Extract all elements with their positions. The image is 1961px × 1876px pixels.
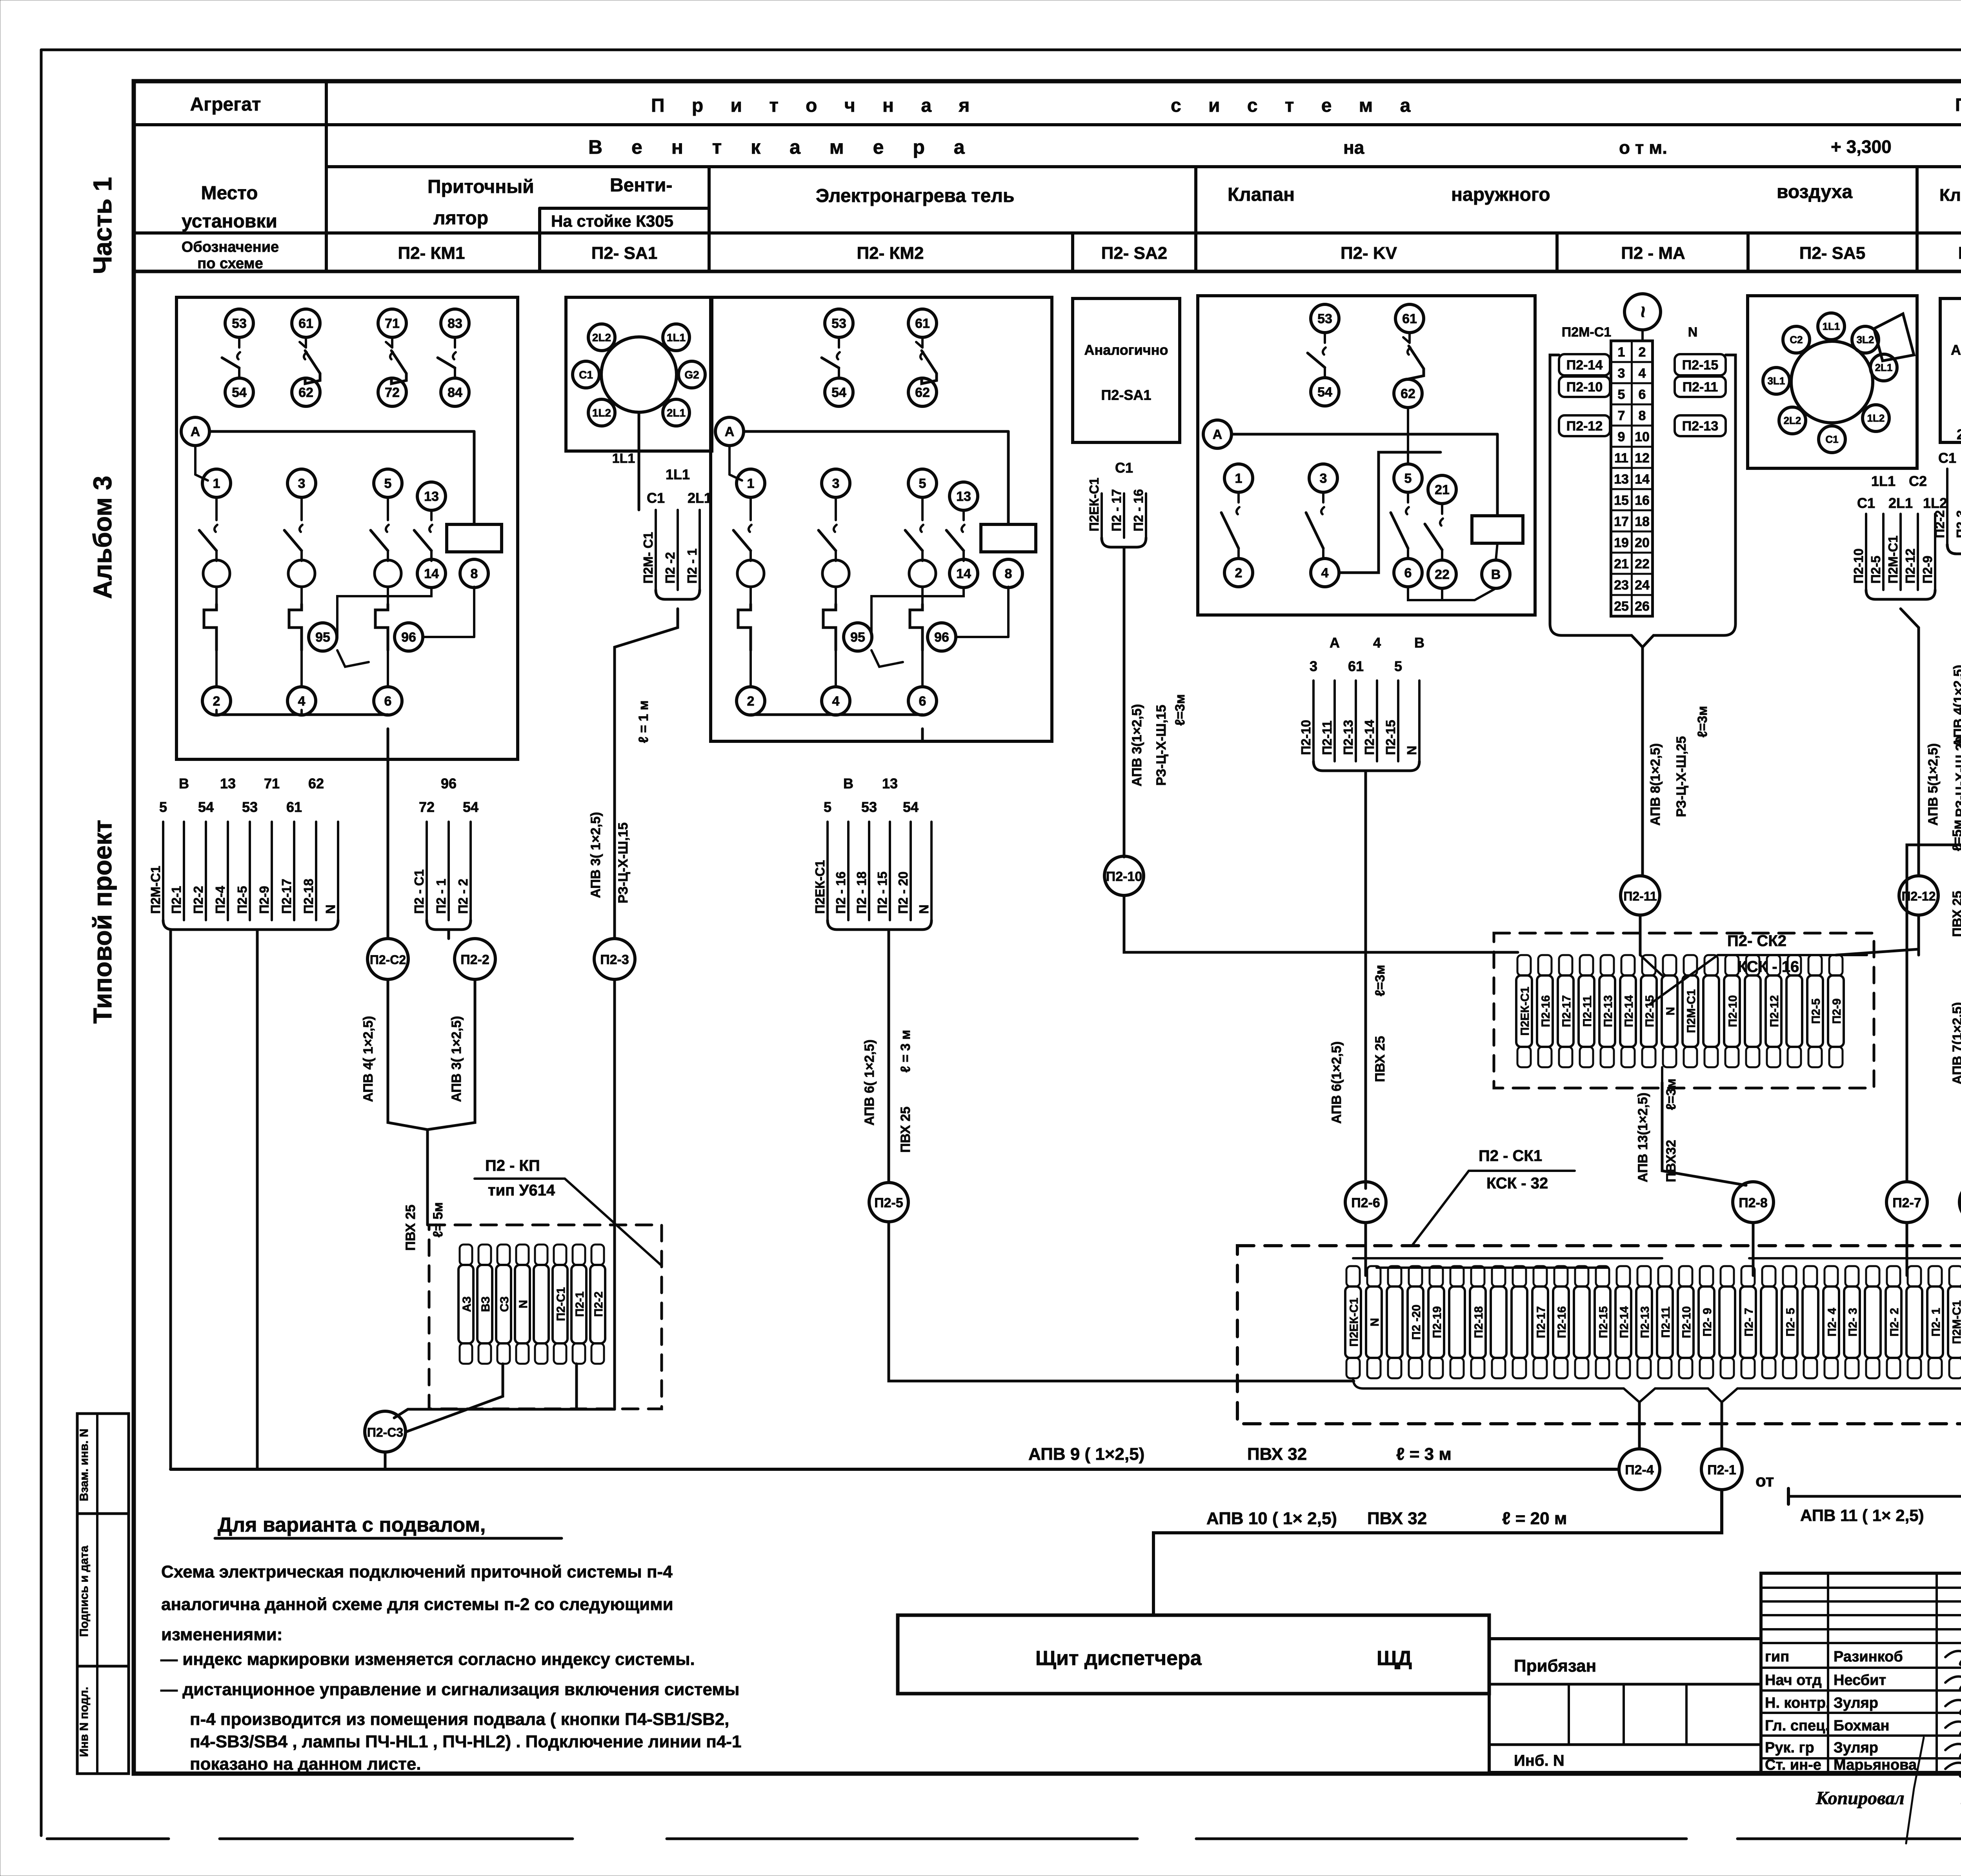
svg-text:П2-5: П2-5 <box>1868 556 1883 584</box>
svg-text:РЗ-Ц-Х-Ш,25: РЗ-Ц-Х-Ш,25 <box>1674 736 1689 817</box>
svg-text:П2-2: П2-2 <box>460 952 489 967</box>
svg-text:П2-10: П2-10 <box>1299 720 1313 755</box>
svg-text:РЗ-Ц-Х-Ш,15: РЗ-Ц-Х-Ш,15 <box>1154 705 1169 786</box>
svg-text:На стойке К305: На стойке К305 <box>551 212 673 230</box>
svg-text:Гл. спец.: Гл. спец. <box>1765 1718 1829 1734</box>
svg-text:П2-1: П2-1 <box>169 886 184 914</box>
svg-text:А: А <box>1213 427 1222 442</box>
svg-text:2: 2 <box>213 694 220 709</box>
svg-text:96: 96 <box>441 775 457 792</box>
svg-text:Клапан: Клапан <box>1228 184 1295 205</box>
svg-text:АЗ: АЗ <box>460 1296 473 1312</box>
svg-text:АПВ 10 ( 1× 2,5): АПВ 10 ( 1× 2,5) <box>1206 1509 1337 1528</box>
svg-text:~: ~ <box>1632 306 1654 318</box>
svg-text:ПВХ 25: ПВХ 25 <box>1950 891 1961 937</box>
svg-text:3L2: 3L2 <box>1857 334 1874 346</box>
svg-text:2L1: 2L1 <box>667 407 686 419</box>
svg-text:воздуха: воздуха <box>1777 182 1852 202</box>
svg-text:АПВ 4( 1×2,5): АПВ 4( 1×2,5) <box>361 1016 376 1102</box>
svg-text:72: 72 <box>385 385 400 400</box>
svg-text:22: 22 <box>1635 557 1650 571</box>
svg-text:АПВ 11 ( 1× 2,5): АПВ 11 ( 1× 2,5) <box>1800 1506 1924 1525</box>
svg-text:10: 10 <box>1635 429 1650 444</box>
svg-text:N: N <box>1664 1007 1677 1015</box>
svg-text:+ 3,300: + 3,300 <box>1831 136 1892 157</box>
svg-text:53: 53 <box>1317 311 1332 326</box>
svg-text:П2ЕК-С1: П2ЕК-С1 <box>1348 1298 1361 1347</box>
svg-text:П2- 9: П2- 9 <box>1701 1308 1714 1336</box>
svg-text:26: 26 <box>1635 599 1650 614</box>
svg-text:Бохман: Бохман <box>1834 1718 1889 1734</box>
svg-text:14: 14 <box>424 566 439 581</box>
svg-text:АПВ 3(1×2,5): АПВ 3(1×2,5) <box>1130 704 1144 786</box>
svg-text:ВЗ: ВЗ <box>479 1296 492 1312</box>
svg-text:В: В <box>1491 567 1501 582</box>
svg-text:П2-9: П2-9 <box>1830 999 1843 1024</box>
svg-text:4: 4 <box>1373 635 1381 651</box>
svg-text:АПВ 6(1×2,5): АПВ 6(1×2,5) <box>1329 1041 1344 1124</box>
svg-text:П2-11: П2-11 <box>1581 995 1594 1027</box>
svg-text:3: 3 <box>832 476 840 491</box>
svg-text:ℓ= 5м: ℓ= 5м <box>431 1202 446 1237</box>
svg-text:П2- 7: П2- 7 <box>1743 1308 1755 1336</box>
svg-text:61: 61 <box>1348 658 1364 674</box>
svg-text:П2-4: П2-4 <box>1625 1463 1654 1478</box>
svg-text:П2ЕК-С1: П2ЕК-С1 <box>813 860 827 914</box>
svg-text:П2-15: П2-15 <box>1383 720 1398 755</box>
svg-text:Зуляр: Зуляр <box>1834 1695 1878 1711</box>
svg-text:П2-С1: П2-С1 <box>555 1287 568 1321</box>
svg-text:13: 13 <box>882 775 898 792</box>
svg-text:С1: С1 <box>1115 460 1133 476</box>
svg-text:ℓ = 1 м: ℓ = 1 м <box>636 701 651 743</box>
svg-text:В: В <box>1414 635 1424 651</box>
svg-text:2L1: 2L1 <box>688 490 712 506</box>
svg-text:53: 53 <box>831 316 846 331</box>
svg-text:Взам. инв. N: Взам. инв. N <box>78 1428 91 1501</box>
svg-text:16: 16 <box>1635 493 1650 508</box>
svg-text:Место: Место <box>201 183 258 204</box>
svg-text:8: 8 <box>1639 408 1646 423</box>
svg-text:N: N <box>1404 746 1419 755</box>
svg-text:РЗ-Ц-Х-Ш,15: РЗ-Ц-Х-Ш,15 <box>616 822 631 903</box>
svg-text:П2-14: П2-14 <box>1623 995 1635 1027</box>
svg-text:П2-13: П2-13 <box>1639 1306 1652 1338</box>
svg-text:— индекс маркировки измен: — индекс маркировки изменяется согласно … <box>160 1650 695 1669</box>
svg-text:П2-2: П2-2 <box>191 886 206 914</box>
svg-text:ПВХ 25: ПВХ 25 <box>403 1205 418 1251</box>
svg-text:Электронагрева тель: Электронагрева тель <box>816 186 1014 206</box>
svg-text:1L2: 1L2 <box>592 407 611 419</box>
svg-text:71: 71 <box>264 775 280 792</box>
svg-text:АПВ 3( 1×2,5): АПВ 3( 1×2,5) <box>588 812 603 898</box>
svg-text:83: 83 <box>448 316 462 331</box>
svg-text:СЗ: СЗ <box>498 1296 511 1312</box>
svg-text:96: 96 <box>401 630 416 645</box>
svg-text:13: 13 <box>956 489 971 504</box>
svg-text:53: 53 <box>861 799 877 815</box>
svg-text:наружного: наружного <box>1451 184 1550 205</box>
svg-text:2L2: 2L2 <box>1784 415 1801 426</box>
svg-text:61: 61 <box>915 316 930 331</box>
svg-text:3: 3 <box>1320 471 1327 486</box>
svg-text:2: 2 <box>1639 345 1646 360</box>
svg-text:П2-10: П2-10 <box>1566 380 1603 395</box>
svg-text:лятор: лятор <box>433 208 488 229</box>
svg-text:1: 1 <box>1618 345 1625 360</box>
svg-text:21: 21 <box>1435 482 1450 497</box>
svg-text:П2 - 2: П2 - 2 <box>456 879 470 914</box>
svg-text:АПВ 5(1×2,5): АПВ 5(1×2,5) <box>1926 743 1941 826</box>
svg-text:В: В <box>843 775 853 792</box>
svg-text:П2- 5: П2- 5 <box>1784 1308 1797 1336</box>
svg-text:4: 4 <box>1321 566 1329 580</box>
svg-text:1: 1 <box>213 476 220 491</box>
svg-text:ℓ=3м: ℓ=3м <box>1695 706 1710 738</box>
svg-text:П2 - 15: П2 - 15 <box>875 872 890 914</box>
svg-text:П2М-С1: П2М-С1 <box>1886 535 1900 584</box>
svg-text:П2- KV: П2- KV <box>1341 244 1397 263</box>
svg-text:84: 84 <box>448 385 462 400</box>
svg-text:6: 6 <box>1639 387 1646 402</box>
svg-text:72: 72 <box>419 799 435 815</box>
svg-text:24: 24 <box>1635 578 1650 593</box>
svg-text:П2- КМ1: П2- КМ1 <box>398 244 465 263</box>
svg-text:П2-10: П2-10 <box>1851 548 1866 584</box>
svg-text:1L1: 1L1 <box>1871 473 1896 489</box>
svg-text:53: 53 <box>242 799 258 815</box>
svg-text:N: N <box>323 904 338 914</box>
svg-text:П2- 4: П2- 4 <box>1826 1308 1839 1337</box>
svg-text:96: 96 <box>934 630 949 645</box>
svg-text:изменениями:: изменениями: <box>161 1625 282 1644</box>
svg-text:7: 7 <box>1618 408 1625 423</box>
svg-text:1L1: 1L1 <box>667 331 686 344</box>
svg-text:8: 8 <box>1005 566 1012 581</box>
svg-text:П2-15: П2-15 <box>1682 358 1719 373</box>
svg-text:П2 - 1: П2 - 1 <box>434 879 448 914</box>
svg-text:Типовой проект: Типовой проект <box>88 820 117 1024</box>
svg-text:54: 54 <box>232 385 247 400</box>
svg-text:1L2: 1L2 <box>1923 495 1947 511</box>
svg-text:Клапан: Клапан <box>1939 186 1961 205</box>
svg-text:19: 19 <box>1614 535 1629 550</box>
svg-text:П2-7: П2-7 <box>1892 1195 1921 1210</box>
svg-text:С1: С1 <box>647 490 665 506</box>
svg-text:14: 14 <box>1635 472 1650 487</box>
svg-text:П2-13: П2-13 <box>1341 720 1355 755</box>
svg-text:П2 - МА: П2 - МА <box>1621 244 1685 263</box>
svg-text:5: 5 <box>384 476 392 491</box>
svg-text:54: 54 <box>463 799 478 815</box>
svg-text:П2-18: П2-18 <box>301 879 316 914</box>
svg-text:3: 3 <box>1310 658 1317 674</box>
svg-text:C1: C1 <box>579 369 593 381</box>
svg-text:П2- 3: П2- 3 <box>1846 1308 1859 1336</box>
svg-text:П2 - С1: П2 - С1 <box>412 869 426 914</box>
svg-text:Инб. N: Инб. N <box>1514 1752 1564 1769</box>
svg-text:установки: установки <box>182 211 277 232</box>
svg-text:ℓ=5м: ℓ=5м <box>1950 820 1961 852</box>
svg-text:— дистанционное управлени: — дистанционное управление и сигнализаци… <box>160 1680 739 1699</box>
svg-text:Для варианта с подвалом,: Для варианта с подвалом, <box>218 1514 486 1536</box>
svg-text:тип У614: тип У614 <box>488 1182 555 1199</box>
svg-text:18: 18 <box>1635 514 1650 529</box>
svg-text:П2-16: П2-16 <box>1539 995 1552 1027</box>
svg-text:ℓ = 3 м: ℓ = 3 м <box>898 1030 913 1073</box>
svg-text:П2-1: П2-1 <box>1707 1463 1736 1478</box>
svg-text:1L2: 1L2 <box>1867 412 1885 424</box>
svg-text:53: 53 <box>232 316 247 331</box>
svg-text:П2-11: П2-11 <box>1623 889 1657 903</box>
svg-text:П2-17: П2-17 <box>1560 995 1573 1027</box>
svg-text:П2-9: П2-9 <box>1920 556 1935 584</box>
svg-text:П2-8: П2-8 <box>1739 1195 1768 1210</box>
svg-text:95: 95 <box>315 630 330 645</box>
svg-text:9: 9 <box>1618 429 1625 444</box>
svg-text:Аналогично: Аналогично <box>1084 342 1168 358</box>
svg-text:6: 6 <box>919 694 926 709</box>
svg-text:4: 4 <box>1639 366 1646 381</box>
svg-text:С1: С1 <box>1938 450 1956 466</box>
svg-text:5: 5 <box>1618 387 1625 402</box>
svg-text:ПВХ 25: ПВХ 25 <box>1373 1036 1388 1082</box>
svg-text:С1: С1 <box>1857 495 1875 511</box>
svg-text:ПВХ 25: ПВХ 25 <box>898 1106 913 1153</box>
svg-text:3: 3 <box>298 476 306 491</box>
svg-text:П2-14: П2-14 <box>1362 720 1377 755</box>
svg-text:15: 15 <box>1614 493 1629 508</box>
svg-text:13: 13 <box>220 775 236 792</box>
svg-text:Альбом 3: Альбом 3 <box>88 476 117 599</box>
svg-text:АПВ 3( 1×2,5): АПВ 3( 1×2,5) <box>449 1016 464 1102</box>
svg-text:П2-13: П2-13 <box>1682 419 1719 434</box>
svg-text:61: 61 <box>298 316 313 331</box>
svg-text:П2-15: П2-15 <box>1643 995 1656 1027</box>
svg-text:гип: гип <box>1765 1649 1789 1665</box>
svg-text:П2-9: П2-9 <box>257 886 271 914</box>
svg-text:п-4 производится из помещ: п-4 производится из помещения подвала ( … <box>190 1710 729 1729</box>
svg-text:П2-5: П2-5 <box>874 1195 903 1210</box>
svg-text:Зуляр: Зуляр <box>1834 1740 1878 1756</box>
svg-text:П2- СК2: П2- СК2 <box>1727 932 1786 950</box>
svg-text:П2 -20: П2 -20 <box>1410 1305 1423 1340</box>
svg-text:25: 25 <box>1614 599 1629 614</box>
svg-text:N: N <box>1688 325 1698 340</box>
svg-text:А: А <box>725 424 735 439</box>
svg-text:5: 5 <box>1404 471 1412 486</box>
svg-text:по схеме: по схеме <box>197 255 263 272</box>
svg-text:П2-14: П2-14 <box>1618 1306 1631 1338</box>
svg-text:Приточный: Приточный <box>427 177 534 197</box>
svg-text:62: 62 <box>298 385 313 400</box>
svg-text:П2М-С1: П2М-С1 <box>1950 1300 1961 1344</box>
svg-text:П2-5: П2-5 <box>235 886 249 914</box>
svg-text:П2-12: П2-12 <box>1566 419 1603 434</box>
svg-text:21: 21 <box>1614 557 1629 571</box>
svg-text:П2-12: П2-12 <box>1903 548 1917 584</box>
svg-text:ПВХ 32: ПВХ 32 <box>1247 1445 1307 1464</box>
svg-text:62: 62 <box>915 385 930 400</box>
svg-text:П2-4: П2-4 <box>213 886 227 914</box>
svg-text:П2-SА1: П2-SА1 <box>1101 387 1151 403</box>
svg-text:АПВ 13(1×2,5): АПВ 13(1×2,5) <box>1635 1092 1650 1182</box>
svg-text:20: 20 <box>1635 535 1650 550</box>
svg-text:4: 4 <box>298 694 306 709</box>
svg-text:5: 5 <box>159 799 167 815</box>
svg-text:П2-14: П2-14 <box>1566 358 1603 373</box>
svg-text:П2-3: П2-3 <box>1954 510 1961 538</box>
svg-text:П2-18: П2-18 <box>1472 1306 1485 1338</box>
svg-text:Разинкоб: Разинкоб <box>1834 1649 1903 1665</box>
svg-text:Ст. ин-е: Ст. ин-е <box>1765 1757 1821 1773</box>
svg-text:11: 11 <box>1614 451 1628 466</box>
svg-text:Схема электрическая п: Схема электрическая подключений приточно… <box>161 1562 673 1581</box>
svg-text:П2М-С1: П2М-С1 <box>1685 989 1698 1033</box>
svg-text:П р и т о ч н а я: П р и т о ч н а я <box>651 95 980 116</box>
svg-text:П2-12: П2-12 <box>1901 889 1936 903</box>
svg-text:с и с т е м а: с и с т е м а <box>1171 95 1421 116</box>
svg-text:П2-5: П2-5 <box>1810 999 1823 1024</box>
svg-text:17: 17 <box>1614 514 1629 529</box>
svg-text:С2: С2 <box>1790 334 1803 346</box>
svg-text:Обозначение: Обозначение <box>182 239 279 255</box>
svg-text:П2-10: П2-10 <box>1680 1306 1693 1338</box>
svg-text:П2-С2: П2-С2 <box>370 953 406 967</box>
svg-text:АПВ 8(1×2,5): АПВ 8(1×2,5) <box>1648 743 1663 826</box>
svg-text:П2-10: П2-10 <box>1106 869 1142 884</box>
svg-text:П2 - 20: П2 - 20 <box>896 872 910 914</box>
svg-text:П2М- С1: П2М- С1 <box>641 532 655 584</box>
svg-text:П2 - 1: П2 - 1 <box>685 548 699 584</box>
svg-text:N: N <box>1368 1318 1381 1326</box>
svg-text:1: 1 <box>747 476 755 491</box>
svg-text:ℓ = 20 м: ℓ = 20 м <box>1502 1509 1567 1528</box>
svg-text:Копировал: Копировал <box>1815 1788 1905 1809</box>
svg-text:П2-3: П2-3 <box>600 952 629 967</box>
svg-text:6: 6 <box>384 694 392 709</box>
svg-text:П2ЕК-С1: П2ЕК-С1 <box>1519 987 1532 1036</box>
svg-text:П2 - 17: П2 - 17 <box>1109 489 1124 531</box>
svg-text:2L1: 2L1 <box>1875 362 1893 373</box>
svg-text:14: 14 <box>956 566 971 581</box>
svg-text:5: 5 <box>919 476 926 491</box>
svg-text:Н. контр.: Н. контр. <box>1765 1695 1830 1711</box>
svg-text:П2ЕК-С1: П2ЕК-С1 <box>1087 478 1101 531</box>
svg-text:П2- SA5: П2- SA5 <box>1799 244 1866 263</box>
svg-text:23: 23 <box>1614 578 1629 593</box>
svg-text:П2- КМ2: П2- КМ2 <box>857 244 924 263</box>
svg-text:2: 2 <box>1235 566 1242 580</box>
svg-text:54: 54 <box>831 385 846 400</box>
svg-text:8: 8 <box>471 566 478 581</box>
svg-text:П2М-С1: П2М-С1 <box>1562 325 1611 340</box>
svg-text:П2-6: П2-6 <box>1351 1195 1380 1210</box>
svg-text:П2-11: П2-11 <box>1683 380 1718 395</box>
svg-text:2: 2 <box>747 694 755 709</box>
svg-text:54: 54 <box>903 799 919 815</box>
svg-text:А: А <box>191 424 200 439</box>
svg-text:КСК - 32: КСК - 32 <box>1486 1175 1548 1192</box>
svg-text:аналогична данной с: аналогична данной схеме для системы п-2 … <box>161 1595 673 1614</box>
svg-text:13: 13 <box>424 489 439 504</box>
svg-text:АПВ 6( 1×2,5): АПВ 6( 1×2,5) <box>862 1039 877 1126</box>
svg-text:П2-11: П2-11 <box>1659 1306 1672 1338</box>
svg-text:13: 13 <box>1614 472 1629 487</box>
svg-text:1: 1 <box>1235 471 1242 486</box>
svg-text:П2-10: П2-10 <box>1726 995 1739 1027</box>
svg-text:С1: С1 <box>1825 433 1838 445</box>
svg-text:4: 4 <box>832 694 840 709</box>
svg-text:3L1: 3L1 <box>1768 375 1785 387</box>
svg-text:Прибязан: Прибязан <box>1514 1656 1596 1676</box>
svg-text:54: 54 <box>198 799 214 815</box>
svg-text:показано на данном лист: показано на данном листе. <box>190 1754 421 1774</box>
svg-text:6: 6 <box>1404 566 1412 580</box>
svg-text:Нач отд: Нач отд <box>1765 1672 1822 1689</box>
svg-text:п4-SВ3/SВ4 , лампы ПЧ-НL1 ,: п4-SВ3/SВ4 , лампы ПЧ-НL1 , ПЧ-НL2) . По… <box>190 1732 741 1751</box>
svg-text:П2-1: П2-1 <box>573 1292 586 1317</box>
svg-text:54: 54 <box>1317 385 1332 400</box>
svg-text:П2- SA1: П2- SA1 <box>591 244 658 263</box>
svg-text:95: 95 <box>850 630 865 645</box>
svg-text:А: А <box>1330 635 1340 651</box>
svg-text:62: 62 <box>308 775 324 792</box>
svg-text:П2-11: П2-11 <box>1320 721 1334 755</box>
svg-text:Подпись и дата: Подпись и дата <box>78 1545 91 1637</box>
svg-text:П2 - 16: П2 - 16 <box>1131 489 1146 531</box>
svg-text:Несбит: Несбит <box>1834 1672 1886 1689</box>
svg-text:П2-17: П2-17 <box>279 879 294 914</box>
svg-text:ЩД: ЩД <box>1377 1647 1412 1670</box>
svg-text:1L1: 1L1 <box>1823 320 1840 332</box>
svg-text:П2-12: П2-12 <box>1768 995 1781 1027</box>
svg-text:3: 3 <box>1618 366 1625 381</box>
svg-text:П2-19: П2-19 <box>1431 1306 1444 1338</box>
svg-text:N: N <box>917 904 931 914</box>
svg-text:П2-16: П2-16 <box>1555 1306 1568 1338</box>
svg-text:Рук. гр: Рук. гр <box>1765 1740 1814 1756</box>
svg-text:П2- 1: П2- 1 <box>1930 1308 1943 1336</box>
svg-text:на: на <box>1343 137 1364 158</box>
svg-text:П2-2: П2-2 <box>592 1292 605 1317</box>
svg-text:В: В <box>179 775 189 792</box>
svg-text:П2М-С1: П2М-С1 <box>148 866 163 914</box>
svg-text:Венти-: Венти- <box>610 175 672 196</box>
svg-text:G2: G2 <box>684 369 699 381</box>
svg-text:П2 - СК1: П2 - СК1 <box>1479 1147 1542 1165</box>
svg-text:Инв N подл.: Инв N подл. <box>78 1687 91 1757</box>
svg-text:П2 -2: П2 -2 <box>663 552 677 584</box>
svg-text:71: 71 <box>385 316 400 331</box>
svg-text:62: 62 <box>1401 386 1415 401</box>
svg-text:1L1: 1L1 <box>666 466 690 482</box>
svg-text:2L1: 2L1 <box>1888 495 1913 511</box>
svg-text:ℓ=3м: ℓ=3м <box>1664 1079 1679 1110</box>
svg-text:П2- SА2: П2- SА2 <box>1101 244 1168 263</box>
svg-text:П - 2: П - 2 <box>1955 95 1961 115</box>
svg-text:С2: С2 <box>1909 473 1927 489</box>
svg-text:Агрегат: Агрегат <box>190 94 261 115</box>
svg-text:12: 12 <box>1635 451 1650 466</box>
svg-text:ПВХ 32: ПВХ 32 <box>1367 1509 1427 1528</box>
svg-text:22: 22 <box>1435 567 1450 582</box>
svg-text:5: 5 <box>1394 658 1402 674</box>
svg-text:Щит диспетчера: Щит диспетчера <box>1035 1647 1202 1670</box>
svg-text:Аналогично: Аналогично <box>1951 342 1961 358</box>
svg-text:от: от <box>1755 1471 1774 1490</box>
svg-text:П2-15: П2-15 <box>1597 1306 1610 1338</box>
